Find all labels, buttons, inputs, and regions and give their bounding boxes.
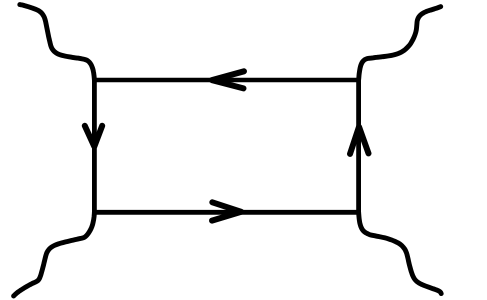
- arrowhead top edge pointing left: [212, 71, 244, 88]
- photon line bottom-right: [359, 212, 442, 293]
- arrowhead left edge pointing down: [85, 126, 102, 147]
- fermion line right edge: [356, 80, 361, 212]
- fermion line left edge: [92, 80, 97, 212]
- photon line top-left: [20, 5, 95, 80]
- photon line top-right: [359, 7, 441, 80]
- fermion line top edge: [94, 78, 358, 83]
- photon line bottom-left: [14, 212, 95, 296]
- fermion line bottom edge: [94, 210, 358, 215]
- arrowhead bottom edge pointing right: [212, 202, 241, 220]
- arrowhead right edge pointing up: [350, 127, 369, 154]
